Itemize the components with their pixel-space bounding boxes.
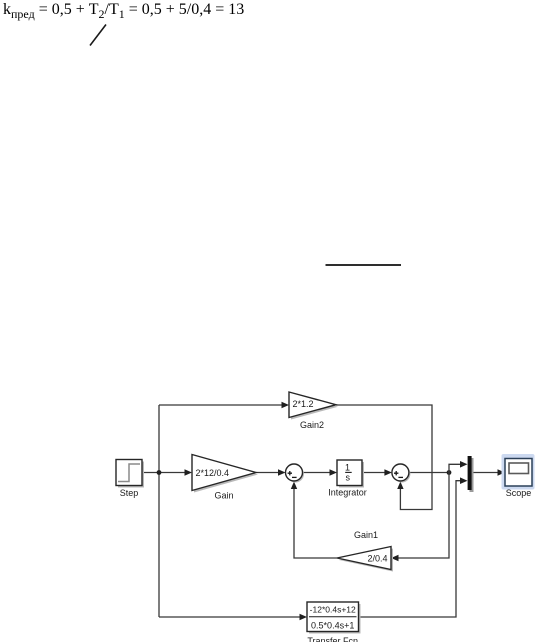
wire: sum1 to integrator bbox=[303, 469, 338, 476]
gain block Gain2 (2*1.2) bbox=[289, 392, 338, 430]
wire: Transfer Fcn output up to mux bottom input bbox=[359, 477, 468, 617]
formula k_pred = 0,5 + T2/T1 = 0,5 + 5/0,4 = 13 bbox=[3, 1, 244, 19]
svg-text:Gain1: Gain1 bbox=[354, 530, 378, 540]
mux bar bbox=[468, 456, 474, 492]
gain block Gain1 (2/0.4) left pointing bbox=[337, 530, 393, 572]
wire: junction up to mux top input bbox=[449, 461, 468, 473]
transfer function block bbox=[307, 602, 361, 642]
svg-text:2*12/0.4: 2*12/0.4 bbox=[196, 468, 230, 478]
svg-text:2*1.2: 2*1.2 bbox=[293, 399, 314, 409]
wire: Gain2 output right then down bbox=[336, 405, 432, 510]
integrator block 1/s bbox=[328, 460, 367, 498]
wire: gain to sum1 bbox=[256, 469, 286, 476]
gain block Gain (2*12/0.4) bbox=[192, 455, 258, 501]
sum junction Sum1 bbox=[286, 464, 305, 483]
wire: mux to scope bbox=[472, 469, 506, 476]
svg-text:s: s bbox=[346, 473, 351, 483]
sum junction Sum2 bbox=[392, 464, 411, 483]
svg-text:0.5*0.4s+1: 0.5*0.4s+1 bbox=[311, 621, 354, 631]
scope block with selection halo bbox=[502, 454, 535, 498]
wire: integrator to sum2 bbox=[362, 469, 392, 476]
svg-text:Integrator: Integrator bbox=[328, 488, 367, 498]
wire: step to gain bbox=[143, 469, 193, 476]
wire: Gain1 output to sum1 bottom bbox=[291, 482, 337, 559]
wire: top branch to Gain2 bbox=[159, 402, 289, 409]
svg-text:Step: Step bbox=[120, 488, 139, 498]
svg-text:Gain: Gain bbox=[214, 491, 233, 501]
source block Step bbox=[116, 460, 144, 499]
svg-text:1: 1 bbox=[345, 462, 350, 472]
wire: junction down to Gain1 bbox=[391, 473, 449, 562]
horizontal rule line mid page bbox=[326, 264, 402, 266]
svg-text:Scope: Scope bbox=[506, 488, 532, 498]
wire: left branch vertical bbox=[158, 405, 160, 617]
node: junction after step bbox=[157, 470, 162, 475]
svg-text:-12*0.4s+12: -12*0.4s+12 bbox=[310, 605, 356, 615]
svg-text:2/0.4: 2/0.4 bbox=[367, 554, 387, 564]
wire: sum2 output to mux junction bbox=[409, 472, 449, 474]
wire: bottom branch to Transfer Fcn bbox=[159, 614, 307, 621]
node: junction right bbox=[447, 470, 452, 475]
svg-text:Gain2: Gain2 bbox=[300, 420, 324, 430]
svg-text:Transfer Fcn: Transfer Fcn bbox=[307, 636, 358, 642]
leader line under formula bbox=[90, 25, 106, 46]
